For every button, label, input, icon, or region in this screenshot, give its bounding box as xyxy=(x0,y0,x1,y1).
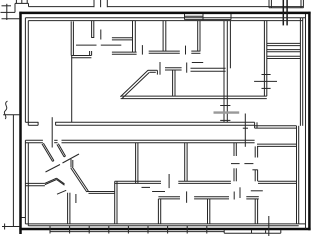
ramp hook top xyxy=(148,69,158,71)
door jamb 240 xyxy=(239,187,241,198)
wall mid-right b xyxy=(191,70,226,72)
diag room bottom b xyxy=(89,192,115,194)
door dash c xyxy=(192,62,203,64)
wall W1 a xyxy=(70,21,72,55)
window mullion xyxy=(127,226,129,234)
inner face top b xyxy=(28,20,302,22)
inner face right xyxy=(305,14,307,229)
T-stem 4 b xyxy=(199,21,201,51)
step front xyxy=(224,232,281,234)
stair east wall a xyxy=(299,18,301,126)
inner face bottom b xyxy=(28,225,298,227)
door leaf u1 xyxy=(100,30,102,40)
T-bar 3 a xyxy=(149,50,180,52)
wall W1 lower xyxy=(71,56,73,123)
stub wall a xyxy=(91,21,93,38)
stub wall b xyxy=(93,21,95,38)
corridor jamb 2 xyxy=(55,122,57,125)
closet wall a xyxy=(67,193,69,224)
step divider 2 xyxy=(265,230,267,233)
bar wall a xyxy=(71,55,91,57)
property line left xyxy=(12,115,14,227)
door leaf B1 xyxy=(57,144,64,157)
mid room wall a xyxy=(184,143,186,182)
door leaf B2 xyxy=(58,144,65,157)
lower mid wall b xyxy=(115,182,161,184)
window mullion xyxy=(186,226,188,234)
window mullion xyxy=(49,226,51,234)
stem T3 a xyxy=(254,199,256,224)
stair tread 0 xyxy=(267,42,301,44)
window jamb 1 xyxy=(184,14,186,20)
swing leaf b xyxy=(63,154,80,163)
hall wall a xyxy=(121,95,267,97)
door leaf u3 xyxy=(185,46,187,55)
window mullion xyxy=(206,226,208,234)
mid room wall b xyxy=(186,143,188,182)
T-stem 5 b xyxy=(174,70,176,96)
stub 255 a xyxy=(254,146,256,157)
exterior wall top xyxy=(19,12,310,15)
break symbol squiggle xyxy=(4,101,7,119)
vent line left xyxy=(15,2,29,4)
vent tick 3 xyxy=(106,0,108,7)
inner face left a lower xyxy=(24,140,26,224)
leaf lower 1 xyxy=(57,190,66,194)
window jamb 3 xyxy=(230,14,232,20)
corridor line a xyxy=(25,121,38,123)
door leaf u2 xyxy=(141,45,143,55)
vent step connector xyxy=(28,3,30,6)
stair door tick 3 xyxy=(262,87,271,89)
vent tick b xyxy=(21,0,23,3)
stem L1 a xyxy=(157,199,159,224)
inner face left a upper xyxy=(24,18,26,123)
T-bar 1 a xyxy=(112,37,133,39)
center wall upper a xyxy=(135,143,137,184)
diag wall a xyxy=(71,168,87,192)
ramp hook end xyxy=(156,70,158,74)
section line 1 xyxy=(51,117,53,147)
vent tick c xyxy=(26,0,28,3)
T-stem 3 a xyxy=(162,21,164,51)
shaft line xyxy=(229,21,231,69)
stem T2 a xyxy=(207,199,209,224)
stair wall a xyxy=(263,20,265,96)
stub cap 255 xyxy=(252,169,257,171)
bar T3 a xyxy=(246,196,258,198)
T-bar 4 a xyxy=(191,50,200,52)
exterior wall bottom xyxy=(19,228,310,231)
door leaf B cap xyxy=(64,155,65,158)
ramp diagonal b xyxy=(122,72,150,98)
property line foot xyxy=(2,226,19,228)
room wall east a xyxy=(296,126,298,224)
diag room bottom a xyxy=(87,191,115,193)
lower top wall b xyxy=(25,142,43,144)
diag stub a xyxy=(70,159,72,168)
chimney bottom xyxy=(269,7,303,9)
door leaf hall xyxy=(159,62,161,75)
stair east wall b xyxy=(302,18,304,126)
wall W2 b xyxy=(226,21,228,123)
bar 2 a xyxy=(112,51,137,53)
window jamb 2 xyxy=(202,14,204,20)
window mullion xyxy=(167,226,169,234)
stub wall cap xyxy=(91,37,94,39)
wall WB b xyxy=(134,21,136,52)
stair door tick 1 xyxy=(262,74,271,76)
vent line mid xyxy=(29,6,94,8)
right room top a xyxy=(257,143,297,145)
level marker bar 0 xyxy=(2,5,12,7)
door leaf u4 xyxy=(186,63,188,73)
stair tread 3 xyxy=(267,51,301,53)
leaf bottom 2 xyxy=(251,190,263,192)
stair tread 1 xyxy=(267,45,301,47)
T-stem 4 a xyxy=(197,21,199,51)
W2 tick 3 xyxy=(220,119,230,121)
stair tread 4 xyxy=(267,55,301,57)
T-bar 5 b xyxy=(165,69,182,71)
property cross tick xyxy=(4,224,6,230)
stem T3 b xyxy=(257,199,259,224)
stub 234 a xyxy=(233,168,235,181)
bar 2 b xyxy=(112,53,137,55)
chimney left edge a xyxy=(268,0,270,8)
T-bar 5 a xyxy=(165,67,182,69)
ramp hook bottom xyxy=(150,71,156,73)
leaf tick mid xyxy=(152,191,165,193)
center wall upper b xyxy=(137,143,139,184)
T-bar 3 b xyxy=(149,52,180,54)
vent tick a xyxy=(15,0,17,3)
wall WB a xyxy=(132,21,134,52)
section tick xyxy=(243,127,248,129)
bar wall b xyxy=(71,57,91,59)
window mullion xyxy=(147,226,149,234)
door leaf A2 xyxy=(43,143,54,161)
room A bottom a xyxy=(25,182,45,184)
wall W2 a xyxy=(223,21,225,123)
leaf lower 2 xyxy=(75,194,77,203)
step connector b xyxy=(256,122,258,128)
duct line a xyxy=(282,0,284,25)
bar T2 b xyxy=(194,198,229,200)
vent tick 2 xyxy=(100,0,102,7)
stair door tick 2 xyxy=(254,80,277,82)
window sill left xyxy=(3,114,19,116)
right hall line a xyxy=(255,125,297,127)
bar L1 a xyxy=(158,196,180,198)
inner face bottom a xyxy=(25,223,305,225)
center wall lower b xyxy=(116,181,118,224)
W2 door gray bar xyxy=(214,111,240,113)
swing leaf a xyxy=(46,165,61,173)
step connector a xyxy=(254,122,256,128)
stem L1 b xyxy=(160,199,162,224)
center wall lower a xyxy=(114,181,116,224)
leaf dash mid xyxy=(142,186,151,188)
closet wall b xyxy=(69,193,71,224)
bifold arm 1a xyxy=(45,178,57,183)
level marker bar 2 xyxy=(2,18,20,20)
bifold arm 1b xyxy=(45,180,57,185)
level marker stem xyxy=(6,4,8,20)
duct line b xyxy=(286,0,288,25)
leaf mid xyxy=(168,174,170,188)
exterior wall right xyxy=(308,12,311,230)
stub 255 a xyxy=(254,170,256,182)
lower mid wall a xyxy=(115,180,161,182)
lower top wall a xyxy=(25,139,43,141)
window mullion xyxy=(108,226,110,234)
room A bottom b xyxy=(25,185,45,187)
stub 255 b xyxy=(257,146,259,157)
door dash b xyxy=(101,44,122,46)
door tick 163 xyxy=(231,163,240,165)
lower mid wall b xyxy=(178,182,231,184)
corridor jamb 1 xyxy=(37,122,39,125)
lower top wall b xyxy=(54,142,57,144)
lower top wall a xyxy=(62,139,255,141)
inner face left b lower xyxy=(27,143,29,226)
stub 234 a xyxy=(233,143,235,156)
bar L1 b xyxy=(158,198,180,200)
window mid line xyxy=(185,15,204,17)
T-bar 4 b xyxy=(191,52,200,54)
bifold arm 2a xyxy=(57,178,65,184)
bar nub a xyxy=(89,51,91,56)
stair tread 5 xyxy=(267,58,301,60)
stub 255 b xyxy=(257,170,259,182)
step edge l xyxy=(223,230,225,233)
level marker bar 1 xyxy=(1,11,16,13)
chimney right edge a xyxy=(300,0,302,8)
right room top b xyxy=(257,145,297,147)
lower top wall b xyxy=(62,142,255,144)
lower mid wall a xyxy=(178,180,231,182)
window sill bottom xyxy=(50,231,224,233)
corridor line a xyxy=(56,121,255,123)
inner face top a xyxy=(25,17,305,19)
chimney left edge b xyxy=(270,0,272,8)
vent tick 1 xyxy=(93,0,95,7)
wall W1 b xyxy=(72,21,74,55)
door leaf A1 xyxy=(42,144,53,162)
window sill line xyxy=(185,19,232,21)
door leaf t2 xyxy=(233,192,235,200)
stair tread 2 xyxy=(267,49,301,51)
section line 3 xyxy=(268,216,270,236)
door tick 163 xyxy=(244,163,253,165)
exterior wall left xyxy=(19,12,22,234)
chimney right edge b xyxy=(302,0,304,8)
room wall east b xyxy=(298,126,300,224)
lower mid wall a xyxy=(258,180,296,182)
bar T2 a xyxy=(194,196,229,198)
corridor line b xyxy=(56,124,255,126)
step edge r xyxy=(280,230,282,233)
diag wall b xyxy=(72,167,88,191)
wall mid-right a xyxy=(191,67,226,69)
right hall line b xyxy=(255,127,297,129)
door leaf A cap xyxy=(53,160,54,163)
marker riser xyxy=(14,3,16,12)
corridor line b xyxy=(28,124,38,126)
vent line right xyxy=(107,6,303,8)
T-stem 5 a xyxy=(172,70,174,96)
window mullion xyxy=(69,226,71,234)
inner face left b upper xyxy=(27,21,29,126)
ramp diagonal a xyxy=(120,70,148,97)
bar T3 b xyxy=(246,198,258,200)
lower mid wall b xyxy=(258,182,296,184)
T-bar 1 b xyxy=(112,39,133,41)
T-stem 3 b xyxy=(165,21,167,51)
hall wall b xyxy=(121,98,267,100)
stair wall b xyxy=(266,20,268,96)
W2 tick 1 xyxy=(220,105,230,107)
bifold arm 2b xyxy=(57,180,65,186)
section line 2 xyxy=(244,114,246,147)
left wall tick xyxy=(22,217,26,219)
lower top wall a xyxy=(54,139,57,141)
diag stub b xyxy=(72,160,74,167)
bar nub b xyxy=(91,51,93,56)
stub 234 b xyxy=(235,168,237,181)
door dash a xyxy=(76,44,97,46)
window mullion xyxy=(88,226,90,234)
stem T2 b xyxy=(209,199,211,224)
stub 234 b xyxy=(235,143,237,156)
leaf bottom 1 xyxy=(186,191,188,202)
step divider xyxy=(251,230,253,233)
